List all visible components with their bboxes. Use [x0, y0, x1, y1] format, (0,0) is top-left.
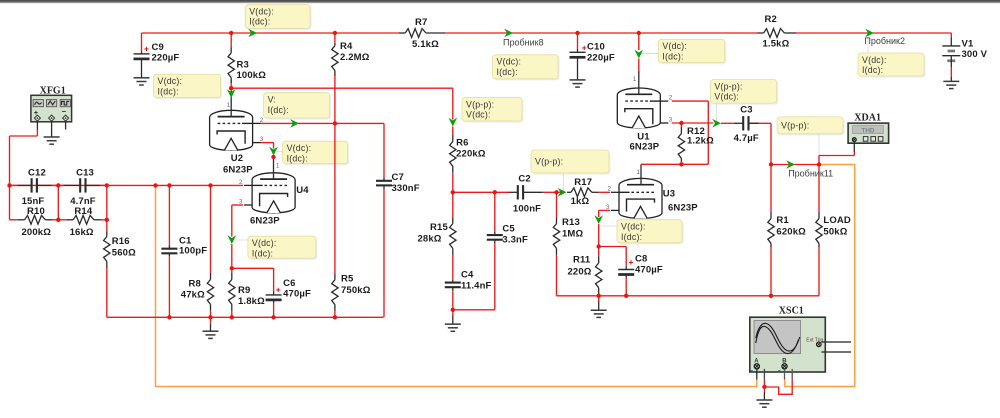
- svg-text:100kΩ: 100kΩ: [237, 70, 267, 81]
- resistor R14: [67, 219, 74, 221]
- wire C9 top: [141, 33, 143, 52]
- junction at 452.8,192.3: [451, 190, 455, 194]
- wire orange scope B to output net: [785, 165, 855, 387]
- svg-text:Пробник8: Пробник8: [503, 38, 544, 48]
- probe box below U4: [249, 238, 317, 260]
- capacitor C4: [452, 279, 454, 282]
- wire U1 grid: [707, 101, 709, 164]
- svg-text:I(dc):: I(dc):: [662, 51, 683, 61]
- svg-text:1.8kΩ: 1.8kΩ: [238, 296, 265, 307]
- wire C8 branch: [599, 246, 627, 248]
- svg-text:750kΩ: 750kΩ: [341, 285, 371, 296]
- wire U3 cathode column: [599, 209, 610, 211]
- XFG1 minus stub: [65, 121, 67, 129]
- wire ground rail 1: [107, 316, 384, 318]
- probe box right of R6: [463, 99, 523, 123]
- probe arrow at 795,164.5: [786, 160, 795, 169]
- svg-text:V(dc):: V(dc):: [252, 238, 277, 248]
- svg-text:4.7µF: 4.7µF: [734, 133, 759, 144]
- svg-text:220µF: 220µF: [587, 53, 615, 64]
- svg-text:THD: THD: [862, 127, 875, 134]
- junction at 556.5,192.3: [554, 190, 558, 194]
- svg-text:1kΩ: 1kΩ: [571, 196, 590, 207]
- probe arrow at 273.5,155.5: [269, 147, 278, 156]
- resistor R16: [106, 232, 108, 237]
- XFG1 + stub: [36, 121, 38, 129]
- wire top B+ rail: [142, 32, 400, 34]
- probe arrow at 638.8,58.5: [635, 50, 644, 59]
- instrument XSC1 oscilloscope: [750, 317, 826, 372]
- svg-text:V(p-p):: V(p-p):: [714, 81, 742, 91]
- resistor R3: [230, 47, 232, 52]
- svg-text:Пробник11: Пробник11: [788, 169, 833, 179]
- leader lines: [867, 33, 869, 53]
- wire scope A- ground net: [763, 380, 765, 393]
- svg-text:I(dc):: I(dc):: [287, 153, 308, 163]
- svg-text:+: +: [629, 257, 634, 267]
- junction at 598.7,295.8: [597, 294, 601, 298]
- svg-text:470µF: 470µF: [283, 289, 311, 300]
- junction at 231.2,88.2: [229, 86, 233, 90]
- svg-text:R7: R7: [415, 17, 427, 28]
- probe arrow at 299,123.4: [290, 119, 299, 128]
- resistor R11: [598, 256, 600, 263]
- capacitor C10: [577, 49, 579, 53]
- svg-text:2: 2: [239, 179, 243, 186]
- U1 pin1 stub: [638, 71, 640, 94]
- wire R12 column: [680, 123, 682, 127]
- wire R8 column: [210, 185, 212, 273]
- wire ground rail 2: [557, 295, 820, 297]
- svg-text:6N23P: 6N23P: [223, 164, 253, 175]
- XFG1 com stub + ground: [51, 121, 53, 137]
- svg-text:R2: R2: [765, 14, 777, 25]
- resistor R15: [452, 192, 454, 217]
- ground scope: [763, 393, 765, 401]
- svg-text:3: 3: [606, 204, 610, 211]
- wire XDA1 branch: [853, 152, 855, 156]
- wire U4 cathode column: [232, 204, 243, 206]
- svg-text:U3: U3: [663, 189, 675, 200]
- svg-text:I(dc):: I(dc):: [252, 248, 273, 258]
- svg-text:V(dc):: V(dc):: [249, 7, 274, 17]
- svg-text:R10: R10: [27, 206, 45, 217]
- svg-text:100pF: 100pF: [179, 246, 207, 257]
- wire R10 row: [10, 219, 19, 221]
- svg-text:LOAD: LOAD: [823, 215, 851, 226]
- svg-text:+: +: [144, 44, 149, 54]
- probe arrow at 874,33: [865, 29, 874, 38]
- junction at 626.2,295.8: [624, 294, 628, 298]
- U2 pin1 stub: [230, 91, 232, 117]
- svg-text:C4: C4: [461, 270, 474, 281]
- wire R6 column: [452, 88, 454, 119]
- wire U2 cathode to U4: [260, 142, 273, 144]
- resistor R13: [556, 217, 558, 224]
- junction at 334.9,33: [333, 31, 337, 35]
- capacitor C5: [494, 192, 496, 231]
- wire rail B: [453, 309, 495, 311]
- U4 pin1 stub: [273, 158, 275, 180]
- probe arrow at 566.5,192.3: [558, 188, 567, 197]
- resistor R5: [334, 273, 336, 280]
- svg-text:220kΩ: 220kΩ: [456, 149, 486, 160]
- svg-text:V(dc):: V(dc):: [621, 222, 646, 232]
- ground rail1 left: [210, 317, 212, 324]
- svg-text:V(dc):: V(dc):: [862, 55, 887, 65]
- svg-text:R6: R6: [456, 138, 468, 149]
- svg-text:C10: C10: [587, 42, 605, 53]
- junction at 106.8,219.8: [105, 218, 109, 222]
- probe arrow at 452.8,126.5: [449, 118, 458, 127]
- probe box below probe8: [494, 56, 560, 80]
- wire C3 out: [759, 122, 772, 124]
- wire R3 column: [230, 33, 232, 47]
- svg-text:U4: U4: [296, 185, 309, 196]
- svg-text:220µF: 220µF: [152, 53, 180, 64]
- junction at 334.9,317.3: [333, 315, 337, 319]
- wire C10 top: [577, 33, 579, 49]
- svg-text:R11: R11: [573, 255, 591, 266]
- probe arrow at 257,33: [248, 29, 257, 38]
- svg-text:V(dc):: V(dc):: [662, 41, 687, 51]
- svg-text:3: 3: [260, 136, 264, 143]
- junction at 452.8,309.8: [451, 308, 455, 312]
- ground V1: [943, 80, 959, 82]
- probe arrow at 231.2,98: [227, 89, 236, 98]
- junction at 681.4,123: [679, 121, 683, 125]
- svg-text:6N23P: 6N23P: [250, 215, 280, 226]
- svg-text:1: 1: [276, 163, 280, 170]
- junction at 764.4,386.8: [762, 385, 766, 389]
- svg-text:1: 1: [227, 102, 231, 109]
- svg-text:C8: C8: [635, 254, 647, 265]
- svg-text:R4: R4: [340, 41, 353, 52]
- svg-text:+: +: [582, 43, 587, 53]
- battery V1: [950, 38, 952, 46]
- junction at 231.8,268.3: [230, 266, 234, 270]
- svg-text:R1: R1: [776, 215, 789, 226]
- svg-text:C13: C13: [76, 168, 94, 179]
- svg-text:2: 2: [669, 95, 673, 102]
- probe box above C3: [712, 81, 778, 105]
- svg-text:Ext Trig: Ext Trig: [806, 337, 823, 343]
- junction at 58.3,185.4: [56, 183, 60, 187]
- probe box above C2: [532, 152, 610, 175]
- svg-text:50kΩ: 50kΩ: [823, 227, 847, 238]
- svg-text:V(p-p):: V(p-p):: [535, 157, 563, 167]
- probe box right of U2: [284, 143, 349, 166]
- junction at 210.5,185.4: [208, 183, 212, 187]
- svg-text:I(dc):: I(dc):: [862, 65, 883, 75]
- svg-text:2: 2: [608, 186, 612, 193]
- svg-text:I(dc):: I(dc):: [497, 67, 518, 77]
- ground C10: [570, 79, 586, 81]
- junction at 9.5,185.4: [7, 183, 11, 187]
- svg-text:300 V: 300 V: [962, 49, 988, 60]
- junction at 598.7,246.5: [597, 244, 601, 248]
- probe box V/I near C9-R3: [155, 76, 222, 99]
- wire C12-C13 links: [57, 185, 59, 219]
- junction at 231.2,33: [229, 31, 233, 35]
- ground rail2: [598, 296, 600, 301]
- svg-text:3.3nF: 3.3nF: [502, 234, 528, 245]
- svg-text:470µF: 470µF: [635, 265, 663, 276]
- wire stage2 line y192: [453, 191, 509, 193]
- svg-text:2.2MΩ: 2.2MΩ: [340, 52, 370, 63]
- svg-text:I(dc):: I(dc):: [249, 17, 270, 27]
- svg-text:XDA1: XDA1: [854, 113, 881, 124]
- wire R16 column: [106, 220, 108, 232]
- svg-text:V1: V1: [962, 39, 974, 50]
- ground C9: [134, 77, 150, 79]
- svg-text:28kΩ: 28kΩ: [418, 234, 442, 245]
- instrument XFG1: [31, 95, 72, 122]
- junction at 494.8,192.3: [493, 190, 497, 194]
- svg-text:R8: R8: [189, 279, 201, 290]
- svg-text:R15: R15: [430, 222, 448, 233]
- junction at 169.4,317.3: [167, 315, 171, 319]
- op-amp U3 triode 6N23P: [619, 178, 662, 218]
- op-amp U4 triode 6N23P: [252, 173, 295, 213]
- wire plate line y88: [231, 87, 453, 89]
- probe box below U3: [618, 221, 683, 244]
- junction at 210.5,317.3: [208, 315, 212, 319]
- svg-text:620kΩ: 620kΩ: [776, 227, 806, 238]
- svg-text:C5: C5: [502, 223, 515, 234]
- probe box below probe2: [859, 55, 925, 78]
- svg-text:3: 3: [669, 116, 673, 123]
- probe arrow at 721,123.2: [712, 119, 721, 128]
- svg-text:C12: C12: [28, 168, 46, 179]
- capacitor C3: [734, 122, 743, 124]
- junction at 231.8,317.3: [230, 315, 234, 319]
- junction at 638.8,33: [637, 31, 641, 35]
- svg-text:I(dc):: I(dc):: [621, 232, 642, 242]
- svg-text:R16: R16: [112, 236, 130, 247]
- junction at 771,295.8: [769, 294, 773, 298]
- svg-text:R9: R9: [238, 285, 250, 296]
- resistor R10: [18, 219, 25, 221]
- svg-text:C6: C6: [283, 278, 295, 289]
- instrument XDA1 distortion analyzer: [848, 123, 889, 143]
- wire R4-R5 column: [334, 33, 336, 43]
- wire U1 plate: [638, 33, 640, 50]
- junction at 58.3,219.8: [56, 218, 60, 222]
- svg-text:560Ω: 560Ω: [112, 248, 136, 259]
- svg-text:I(dc):: I(dc):: [158, 86, 179, 96]
- svg-text:I(dc):: I(dc):: [268, 105, 289, 115]
- resistor R6: [452, 135, 454, 142]
- junction at 169.4,185.4: [167, 183, 171, 187]
- capacitor C1: [168, 245, 170, 249]
- svg-text:C3: C3: [740, 105, 752, 116]
- svg-text:U2: U2: [231, 153, 243, 164]
- resistor R9: [231, 273, 233, 280]
- junction at 771,164.5: [769, 162, 773, 166]
- capacitor C6: [273, 292, 275, 295]
- wire input column: [9, 136, 11, 220]
- svg-text:2: 2: [260, 117, 264, 124]
- svg-text:200kΩ: 200kΩ: [22, 227, 52, 238]
- wire R1 column: [770, 165, 772, 212]
- resistor R1: [770, 212, 772, 219]
- capacitor C9: [141, 52, 143, 54]
- resistor R12: [680, 127, 682, 134]
- svg-text:5.1kΩ: 5.1kΩ: [412, 39, 439, 50]
- junction at 334.9,123.4: [333, 121, 337, 125]
- svg-text:6N23P: 6N23P: [630, 142, 660, 153]
- capacitor C7: [383, 178, 385, 181]
- svg-text:R5: R5: [341, 274, 354, 285]
- svg-text:R3: R3: [237, 60, 249, 71]
- wire U3 plate line: [641, 163, 708, 165]
- capacitor C8: [625, 266, 627, 269]
- svg-text:C7: C7: [392, 172, 404, 183]
- probe arrow at 598.7,224: [594, 215, 603, 224]
- wire orange ext-trig/input net: [156, 185, 757, 386]
- junction at 155.5,185.4: [153, 183, 157, 187]
- svg-text:R13: R13: [562, 217, 580, 228]
- svg-text:16kΩ: 16kΩ: [70, 227, 94, 238]
- capacitor C12: [10, 184, 18, 186]
- resistor R2: [757, 32, 763, 34]
- svg-text:C2: C2: [518, 174, 530, 185]
- wire LOAD column: [818, 165, 820, 212]
- resistor LOAD: [818, 212, 820, 219]
- svg-text:100nF: 100nF: [513, 204, 541, 215]
- svg-text:V(p-p):: V(p-p):: [466, 99, 494, 109]
- svg-text:V:: V:: [268, 95, 276, 105]
- op-amp U2 triode 6N23P: [210, 110, 253, 150]
- svg-text:Пробник2: Пробник2: [864, 36, 905, 46]
- wire C7 column: [383, 123, 385, 177]
- op-amp U1 triode 6N23P: [617, 88, 660, 128]
- XDA1 stub: [853, 142, 855, 152]
- svg-text:V(dc):: V(dc):: [466, 110, 491, 120]
- junction at 106.8,185.4: [105, 183, 109, 187]
- svg-text:47kΩ: 47kΩ: [181, 289, 205, 300]
- svg-text:V(dc):: V(dc):: [497, 57, 522, 67]
- wire V1 mid: [950, 33, 952, 38]
- wire R13 column: [556, 192, 558, 217]
- svg-text:V(dc):: V(dc):: [287, 143, 312, 153]
- wire U1 cathode to C3: [672, 122, 714, 124]
- wire R17 to U3: [557, 191, 561, 193]
- svg-text:1MΩ: 1MΩ: [562, 229, 583, 240]
- resistor R4: [334, 43, 336, 46]
- junction at 819,164.5: [817, 162, 821, 166]
- junction at 577.5,33: [575, 31, 579, 35]
- ground C4: [452, 310, 454, 316]
- scope stubs: [756, 369, 758, 380]
- svg-text:R17: R17: [574, 177, 592, 188]
- capacitor C13: [58, 184, 63, 186]
- resistor R7: [399, 32, 405, 34]
- svg-text:R14: R14: [74, 206, 92, 217]
- capacitor C2: [509, 191, 518, 193]
- wire output node line: [771, 164, 819, 166]
- svg-text:V(p-p):: V(p-p):: [781, 121, 809, 131]
- junction at 681.4,164.3: [679, 162, 683, 166]
- junction at 273.5,157: [271, 155, 275, 159]
- svg-text:C9: C9: [152, 42, 164, 53]
- svg-text:1: 1: [637, 169, 641, 176]
- wire U2 grid line: [260, 122, 384, 124]
- resistor R17: [567, 191, 571, 193]
- svg-text:XSC1: XSC1: [779, 306, 804, 317]
- svg-text:XFG1: XFG1: [40, 86, 66, 97]
- svg-text:330nF: 330nF: [392, 183, 420, 194]
- probe box right of U1 top: [660, 41, 726, 64]
- svg-text:1.5kΩ: 1.5kΩ: [763, 39, 790, 50]
- probe box V: right of R3: [265, 94, 331, 119]
- svg-text:3: 3: [239, 198, 243, 205]
- U3 pin1 stub: [640, 164, 642, 184]
- svg-text:6N23P: 6N23P: [668, 203, 698, 214]
- probe box V(p-p) near XDA1: [779, 119, 845, 136]
- probe arrow at 231.8,244: [228, 235, 237, 244]
- svg-text:1.2kΩ: 1.2kΩ: [687, 136, 714, 147]
- junction at 273.6,317.3: [271, 315, 275, 319]
- svg-text:V(dc):: V(dc):: [714, 92, 739, 102]
- wire input line: [10, 184, 244, 186]
- probe box top: [247, 6, 312, 30]
- svg-text:1: 1: [633, 76, 637, 83]
- svg-text:220Ω: 220Ω: [568, 267, 592, 278]
- wire C1 column: [168, 185, 170, 245]
- resistor R8: [210, 273, 212, 280]
- svg-text:+: +: [276, 285, 281, 295]
- svg-text:V(dc):: V(dc):: [158, 76, 183, 86]
- svg-text:11.4nF: 11.4nF: [461, 281, 492, 292]
- probe arrow at 513,33: [504, 29, 513, 38]
- wire C6 branch: [232, 267, 274, 269]
